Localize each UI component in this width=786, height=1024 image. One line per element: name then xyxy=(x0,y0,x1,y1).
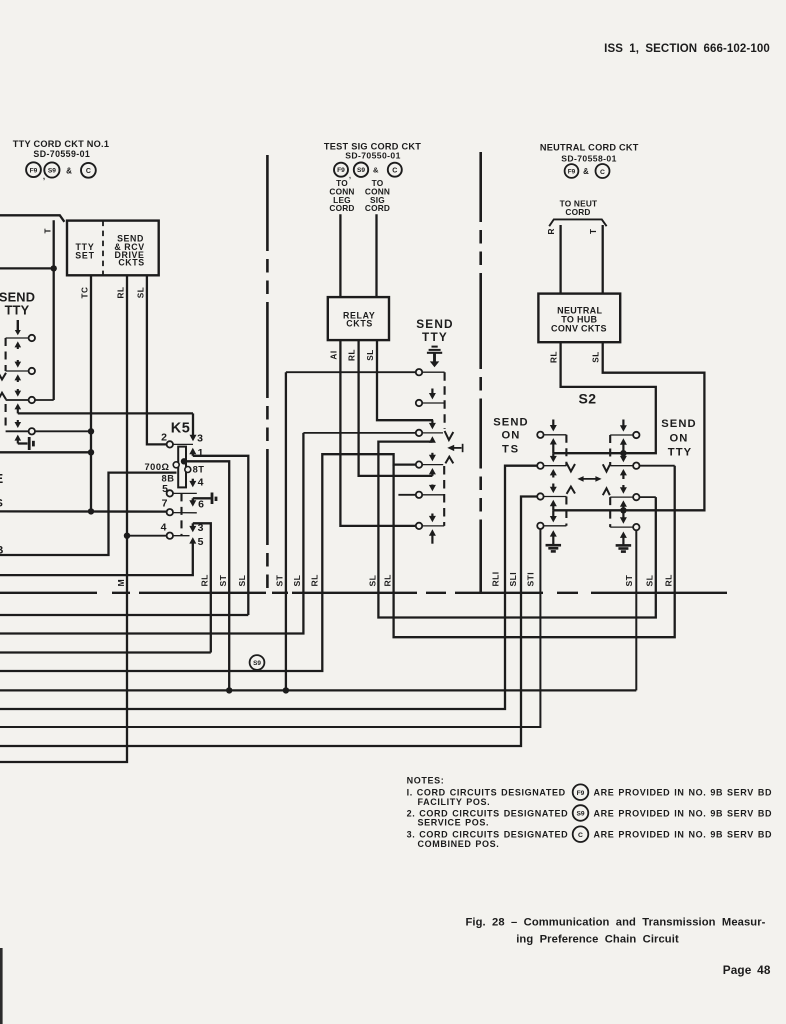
arrow up K5 contact 5 lower xyxy=(192,541,194,544)
wire down to K5 contact 3 with arrow xyxy=(192,413,194,435)
junction dot T wire xyxy=(51,265,57,271)
S2 left contact 1 stub xyxy=(544,434,567,436)
S2 left contact 4 stub xyxy=(544,525,567,527)
contact L1 circle xyxy=(29,335,35,341)
wire left chain to K5 contact 3 xyxy=(18,412,193,414)
designation circle S9 (tty cord) xyxy=(44,162,59,177)
S2 left contact 2 stub xyxy=(544,465,567,467)
wire page edge to node T xyxy=(0,267,54,269)
S2 right contact 3 circle xyxy=(633,494,639,500)
designation circle F9 (tty cord) xyxy=(26,162,41,177)
arrow up below L1 xyxy=(17,346,19,349)
S2 left contact 3 circle xyxy=(537,493,543,499)
dashed link S2 left rows 1-2 xyxy=(565,435,567,466)
S2 right contact 4 circle xyxy=(633,524,639,530)
wire R to neutral box xyxy=(559,225,561,294)
wire SL(K5) to page edge xyxy=(0,614,248,616)
svg-text:RL: RL xyxy=(664,574,674,586)
designation circle F9 (test sig cord) xyxy=(334,163,348,177)
arrow up below M4 xyxy=(431,473,433,476)
operate arrow middle chain xyxy=(452,447,462,449)
contact M2 armature xyxy=(422,402,444,404)
contact M3 line to SL-mid riser xyxy=(303,432,415,434)
flexible link bars xyxy=(432,346,438,348)
contact K5-2 circle xyxy=(167,441,173,447)
wire SL neutral to S2 lower cross xyxy=(553,342,704,510)
designation circle S9 (strapping) xyxy=(250,655,265,670)
junction dot 8T xyxy=(181,458,187,464)
svg-text:6: 6 xyxy=(198,499,204,511)
svg-text:1: 1 xyxy=(198,447,204,459)
contact M1 line to ST riser xyxy=(286,371,416,373)
svg-text:F9: F9 xyxy=(30,167,38,174)
svg-text:S9: S9 xyxy=(357,167,365,174)
wire S2 left contact 2 to RLI riser xyxy=(0,466,537,709)
svg-text:C: C xyxy=(86,168,91,175)
S2 left arrows row2 xyxy=(552,453,554,457)
svg-text:SD-70559-01: SD-70559-01 xyxy=(33,149,90,159)
dashed link S2 left rows 3-4 xyxy=(565,497,567,526)
wire 700 ohm feed from page edge riser xyxy=(0,473,177,555)
svg-text:SLI: SLI xyxy=(508,572,518,587)
off-normal caret mark middle xyxy=(445,457,453,464)
contact K5-5 armature xyxy=(173,492,197,494)
box NEUTRAL TO HUB CONV CKTS U3 xyxy=(538,294,620,343)
off-normal V mark (page edge) xyxy=(0,372,6,380)
svg-text:STI: STI xyxy=(526,572,536,587)
svg-text:SERVICE POS.: SERVICE POS. xyxy=(418,817,490,827)
S2 right arrows row1 xyxy=(622,420,624,427)
svg-text:S9: S9 xyxy=(48,168,56,175)
contact L3 line to node T xyxy=(6,399,54,401)
S2 right contact 3 stub xyxy=(610,496,633,498)
dashed link K5 5-7-4 xyxy=(180,493,182,535)
contact K5-2/3 armature xyxy=(173,443,193,445)
contact M5 stub line xyxy=(398,494,415,496)
svg-text:700Ω: 700Ω xyxy=(145,462,170,472)
contact M5 circle xyxy=(416,492,422,498)
svg-text:C: C xyxy=(600,169,605,176)
junction dot TC mid xyxy=(88,449,94,455)
contact M6 circle xyxy=(416,523,422,529)
S2 left contact 2 circle xyxy=(537,463,543,469)
svg-text:ARE PROVIDED IN NO. 9B SERV BD: ARE PROVIDED IN NO. 9B SERV BD xyxy=(594,808,773,818)
S2 right arrows row2 xyxy=(622,453,624,457)
svg-text:SL: SL xyxy=(292,575,302,587)
wire T to neutral box xyxy=(602,225,604,294)
svg-text:TC: TC xyxy=(81,287,90,299)
svg-text:NOTES:: NOTES: xyxy=(407,776,445,786)
svg-text:E: E xyxy=(0,471,4,486)
contact L2 circle xyxy=(29,368,35,374)
junction dot S2 lower cross xyxy=(620,507,626,513)
svg-text:SL: SL xyxy=(237,575,247,587)
cable bracket TO NEUT CORD xyxy=(549,219,606,226)
wire S2 left contact 4 to STI riser xyxy=(0,529,540,727)
svg-text:SEND: SEND xyxy=(416,317,454,331)
thick actuate arrow middle chain xyxy=(433,353,436,362)
arrow down K5 contact 3 lower xyxy=(192,523,194,527)
S2 right arrows row3 xyxy=(622,485,624,488)
arrow up below L4 xyxy=(17,440,19,444)
svg-text:T: T xyxy=(44,228,53,233)
battery symbol left chain xyxy=(18,442,28,444)
ground arrow S2 left xyxy=(552,536,554,545)
off-normal caret mark (page edge) xyxy=(0,393,6,400)
junction dot M wire xyxy=(124,533,130,539)
svg-text:7: 7 xyxy=(162,498,168,510)
wire AI from relay ckts to mid contact 6 xyxy=(340,340,415,526)
wire K5 lower 3 to RL riser xyxy=(193,523,211,652)
contact M5 armature xyxy=(422,494,444,496)
wire below-M3 to S2 SL (under bus) xyxy=(378,442,655,618)
wire from page edge to tty set box (diagonal entry) xyxy=(0,215,64,222)
off-normal caret mark S2 right xyxy=(603,488,610,495)
contact M1 circle xyxy=(416,369,422,375)
wire RL neutral to S2 upper cross xyxy=(553,342,656,453)
junction dot S2 upper cross xyxy=(620,450,626,456)
wire RL(K5) to page edge xyxy=(0,651,211,653)
wire SL-mid riser to page edge xyxy=(0,433,303,634)
svg-text:R: R xyxy=(547,228,556,234)
contact L2 stub xyxy=(6,370,29,372)
section separator vertical right (dash) xyxy=(479,152,482,592)
svg-text:8T: 8T xyxy=(193,465,205,475)
contact M2 circle xyxy=(416,400,422,406)
svg-text:T: T xyxy=(589,229,598,234)
dashed link M1-M2-M3 xyxy=(444,372,446,429)
svg-text:CORD: CORD xyxy=(365,203,390,213)
designation circle C (tty cord) xyxy=(81,163,96,178)
contact L3 circle xyxy=(29,397,35,403)
svg-text:ON: ON xyxy=(670,433,689,445)
dashed link M4-M5-M6 xyxy=(443,466,445,526)
contact M4 line with jog to RL-mid riser xyxy=(0,454,415,671)
svg-text:CKTS: CKTS xyxy=(118,258,144,268)
wire S2 left contact 3 to SLI riser xyxy=(0,497,537,747)
wire T riser node xyxy=(53,220,55,400)
designation circle S9 (test sig cord) xyxy=(354,163,368,177)
off-normal caret mark S2 left xyxy=(567,487,575,494)
off-normal V mark middle xyxy=(445,431,454,440)
S2 right contact 2 circle xyxy=(633,463,639,469)
arrow up below L2 xyxy=(17,379,19,382)
svg-text:RL: RL xyxy=(117,287,126,299)
divider dashed in tty set box xyxy=(102,221,104,276)
svg-text:5: 5 xyxy=(198,536,204,548)
operate double arrow S2 xyxy=(581,478,599,480)
dashed link L3-L4 xyxy=(5,404,7,429)
box TTY SET / SEND & RCV DRIVE CKTS xyxy=(67,221,159,276)
svg-text:CORD: CORD xyxy=(329,203,354,213)
svg-text:NEUTRAL CORD CKT: NEUTRAL CORD CKT xyxy=(540,143,639,153)
box RELAY CKTS U2 xyxy=(328,297,389,340)
arrow down K5 contact 6 with battery xyxy=(193,497,211,499)
svg-text:C: C xyxy=(578,832,583,839)
svg-text:S9: S9 xyxy=(253,660,261,667)
svg-text:TTY: TTY xyxy=(422,330,448,344)
svg-text:ST: ST xyxy=(218,574,228,586)
contact K5-5 circle xyxy=(167,490,173,496)
ground S2 left xyxy=(546,544,562,547)
svg-text:Page 48: Page 48 xyxy=(723,963,771,977)
svg-text:Fig. 28 – Communication and Tr: Fig. 28 – Communication and Transmission… xyxy=(465,917,765,929)
svg-text:F9: F9 xyxy=(577,790,585,797)
svg-text:SET: SET xyxy=(75,250,95,260)
arrow down above L2 xyxy=(17,360,19,363)
contact K5-7 armature xyxy=(173,512,197,514)
svg-text:3: 3 xyxy=(197,433,203,445)
svg-text:S9: S9 xyxy=(576,811,584,818)
contact K5-4 circle xyxy=(167,533,173,539)
svg-text:RL: RL xyxy=(348,349,357,361)
svg-text:TS: TS xyxy=(502,444,520,456)
svg-text:4: 4 xyxy=(161,522,167,534)
junction dot TC / contact L4 xyxy=(88,428,94,434)
arrow down above L4 xyxy=(17,420,19,423)
svg-text:S: S xyxy=(0,498,3,510)
junction dot ST / ST-K5 xyxy=(226,687,232,693)
wire M4 to S2 RL (under bus) xyxy=(394,465,675,638)
svg-text:&: & xyxy=(583,167,589,176)
section separator horizontal bus (chain line) xyxy=(0,592,97,594)
svg-text:SL: SL xyxy=(368,575,378,587)
svg-text:&: & xyxy=(373,166,379,175)
contact M4 armature xyxy=(422,464,443,466)
contact M1 armature xyxy=(422,371,444,373)
svg-text:RL: RL xyxy=(550,351,559,363)
svg-text:TTY CORD CKT NO.1: TTY CORD CKT NO.1 xyxy=(13,139,109,149)
svg-text:ARE PROVIDED IN NO. 9B SERV BD: ARE PROVIDED IN NO. 9B SERV BD xyxy=(594,788,773,798)
S2 right contact 1 circle xyxy=(633,432,639,438)
svg-text:&: & xyxy=(66,167,72,176)
wire S2 right contact 3 to SL riser (drawn with M3 connector) xyxy=(640,496,656,498)
svg-text:AI: AI xyxy=(330,350,339,359)
contact L4 circle xyxy=(29,428,35,434)
svg-text:SL: SL xyxy=(366,349,375,360)
arrow down above M5 xyxy=(431,485,433,486)
S2 right contact 2 stub xyxy=(610,465,633,467)
wire S2 right contact 2 to RL riser (drawn with M4 connector) xyxy=(640,465,675,467)
contact K5-7 circle xyxy=(167,509,173,515)
scan edge artifact left xyxy=(0,948,3,1024)
wire SL from relay ckts to arrow above mid contact 3 xyxy=(377,340,433,420)
S2 right arrows row4 xyxy=(622,510,624,518)
designation circle C (test sig cord) xyxy=(388,163,402,177)
wire page edge to TC xyxy=(0,451,91,453)
S2 left contact 3 stub xyxy=(544,496,567,498)
wire conn leg cord to relay ckts xyxy=(339,214,341,297)
arrow down above L3 xyxy=(17,389,19,392)
junction dot TC bottom xyxy=(88,508,94,514)
svg-text:CKTS: CKTS xyxy=(346,318,373,328)
svg-text:M: M xyxy=(116,579,126,587)
arrow actuate left chain xyxy=(17,320,19,331)
svg-text:CORD: CORD xyxy=(565,207,590,217)
designation circle C (neutral cord) xyxy=(596,164,610,178)
dashed link L1-L2 xyxy=(5,338,7,371)
svg-text:F9: F9 xyxy=(337,167,345,174)
arrow up below M6 xyxy=(431,535,433,544)
wire K5 lower 5 to page edge xyxy=(0,544,193,576)
arrow down above M6 xyxy=(431,514,433,517)
wire page edge to K5 contact 7 xyxy=(0,510,166,513)
S2 right contact 1 stub xyxy=(610,434,633,436)
arrow down above M3 xyxy=(431,420,433,424)
wire K5 contact 1 to SL riser xyxy=(193,456,249,615)
wire RL/M from tty set box down to bottom bus xyxy=(0,275,127,762)
wire SL from tty set box to relay K5 contact 2 xyxy=(147,275,167,444)
svg-text:SL: SL xyxy=(592,351,601,362)
svg-text:8B: 8B xyxy=(162,474,175,484)
svg-text:2: 2 xyxy=(161,432,167,444)
svg-text:F9: F9 xyxy=(568,169,576,176)
svg-text:SL: SL xyxy=(645,575,655,587)
svg-text:ing Preference Chain Circuit: ing Preference Chain Circuit xyxy=(516,934,679,946)
wire S2 right contact 4 to ST riser xyxy=(635,530,637,690)
wire conn sig cord to relay ckts xyxy=(375,214,377,297)
contact M3 armature xyxy=(422,432,443,434)
junction dot ST / ST-mid xyxy=(283,687,289,693)
section separator vertical left (dash) xyxy=(266,155,269,592)
wire ST-mid riser xyxy=(285,372,287,690)
S2 left arrows row4 xyxy=(552,510,554,517)
svg-text:ARE PROVIDED IN NO. 9B SERV BD: ARE PROVIDED IN NO. 9B SERV BD xyxy=(594,830,773,840)
off-normal V mark S2 left xyxy=(567,463,575,471)
svg-text:ISS 1, SECTION 666-102-100: ISS 1, SECTION 666-102-100 xyxy=(604,43,770,55)
contact M3 circle xyxy=(416,430,422,436)
svg-text:ST: ST xyxy=(624,574,634,586)
arrow down K5 contact 4 xyxy=(192,479,194,482)
svg-text:SEND: SEND xyxy=(493,417,528,429)
contact K5-4 armature xyxy=(173,535,190,537)
S2 right contact 4 stub xyxy=(610,526,633,528)
svg-text:RL: RL xyxy=(200,574,210,586)
svg-text:C: C xyxy=(392,167,397,174)
svg-text:FACILITY POS.: FACILITY POS. xyxy=(418,797,491,807)
svg-text:RL: RL xyxy=(310,574,320,586)
svg-text:S2: S2 xyxy=(578,391,596,407)
svg-text:,: , xyxy=(349,173,351,180)
svg-text:K5: K5 xyxy=(171,421,191,437)
S2 left contact 4 circle xyxy=(537,523,543,529)
wire RL from relay ckts to arrow below mid contact 4 xyxy=(359,340,433,476)
arrow down above M2 xyxy=(431,389,433,395)
designation circle F9 (neutral cord) xyxy=(565,164,579,178)
transfer circle right of resistor 8T xyxy=(185,467,191,473)
contact L1 stub xyxy=(6,337,29,339)
svg-text:ST: ST xyxy=(275,574,285,586)
svg-text:SD-70550-01: SD-70550-01 xyxy=(345,151,401,161)
arrow down above M4 xyxy=(431,453,433,456)
arrow up K5 contact 1 xyxy=(192,453,194,456)
contact M4 circle xyxy=(416,461,422,467)
off-normal V mark S2 right xyxy=(603,464,610,471)
svg-text:RLI: RLI xyxy=(491,571,501,586)
S2 left arrows row3 xyxy=(552,484,554,488)
S2 left arrows row1 xyxy=(552,420,554,427)
wire M to K5 contact 4 xyxy=(127,535,166,537)
svg-text:SL: SL xyxy=(137,287,146,298)
arrow up below M3 xyxy=(431,441,433,443)
wire 8T to ST riser xyxy=(184,461,229,690)
svg-text:RL: RL xyxy=(383,574,393,586)
ground S2 right xyxy=(616,544,632,547)
svg-text:SEND: SEND xyxy=(661,418,696,430)
dashed link S2 right rows 1-2 xyxy=(609,435,611,466)
contact L4 line to TC wire xyxy=(6,430,91,432)
svg-text:4: 4 xyxy=(198,477,204,489)
svg-text:ON: ON xyxy=(502,430,521,442)
transfer circle left of resistor xyxy=(173,462,179,468)
svg-text:TTY: TTY xyxy=(668,446,692,458)
wire ST to page edge with taps xyxy=(0,689,636,691)
dashed link S2 right rows 3-4 xyxy=(609,497,611,527)
wire TC from tty set box xyxy=(90,275,92,511)
arrow up below L3 feeding K5 wire xyxy=(17,408,19,413)
ground arrow S2 right xyxy=(622,537,624,545)
svg-text:SD-70558-01: SD-70558-01 xyxy=(561,154,617,164)
contact M6 armature xyxy=(422,525,444,527)
svg-text:CONV CKTS: CONV CKTS xyxy=(551,324,607,334)
svg-text:COMBINED POS.: COMBINED POS. xyxy=(418,839,500,849)
svg-text:TTY: TTY xyxy=(5,303,30,318)
S2 left contact 1 circle xyxy=(537,432,543,438)
resistor 700 ohm 8B body xyxy=(178,447,186,488)
